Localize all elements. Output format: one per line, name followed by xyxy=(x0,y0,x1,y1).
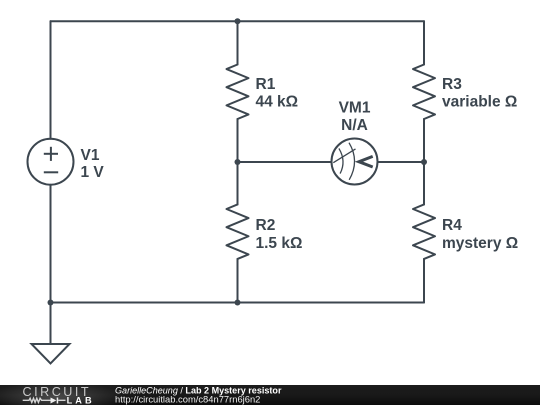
svg-text:VM1: VM1 xyxy=(339,100,371,117)
wire middle horizontal right of VM1 xyxy=(378,161,425,163)
svg-text:44 kΩ: 44 kΩ xyxy=(256,93,299,110)
resistor R4 xyxy=(413,204,435,259)
wire left vertical lower xyxy=(50,185,52,303)
svg-text:R3: R3 xyxy=(442,76,462,93)
resistor R2 xyxy=(227,204,249,259)
node middle junction xyxy=(235,159,241,165)
ground xyxy=(32,344,70,364)
wire right branch bottom xyxy=(423,259,425,303)
wire middle branch top xyxy=(237,21,239,64)
voltage source V1 xyxy=(28,139,74,185)
svg-text:R4: R4 xyxy=(442,217,462,234)
footer logo schematic line xyxy=(23,398,66,402)
footer logo diode xyxy=(51,398,59,404)
wire middle branch bottom xyxy=(237,259,239,303)
svg-text:variable Ω: variable Ω xyxy=(442,93,517,110)
wire bottom rail xyxy=(51,302,425,304)
svg-text:http://circuitlab.com/c84n77rn: http://circuitlab.com/c84n77rn6j6n2 xyxy=(115,394,260,405)
wire left vertical upper xyxy=(50,21,52,138)
svg-text:R1: R1 xyxy=(256,76,276,93)
node ground junction xyxy=(48,300,54,306)
resistor R3 xyxy=(413,65,435,120)
svg-text:N/A: N/A xyxy=(341,117,368,134)
svg-text:mystery Ω: mystery Ω xyxy=(442,235,518,252)
node bottom middle junction xyxy=(235,300,241,306)
node right middle junction xyxy=(421,159,427,165)
svg-text:LAB: LAB xyxy=(67,395,95,405)
wire top rail xyxy=(51,20,425,22)
wire right branch center xyxy=(423,119,425,204)
footer bar xyxy=(0,380,540,405)
svg-text:R2: R2 xyxy=(256,217,276,234)
wire right branch top xyxy=(423,21,425,64)
svg-text:V1: V1 xyxy=(81,147,100,164)
resistor R1 xyxy=(227,65,249,120)
wire middle branch center xyxy=(237,119,239,204)
voltmeter VM1 xyxy=(332,139,378,185)
wire ground stem xyxy=(50,303,52,345)
svg-text:1 V: 1 V xyxy=(81,164,105,181)
svg-text:1.5 kΩ: 1.5 kΩ xyxy=(256,235,303,252)
node top middle junction xyxy=(235,18,241,24)
wire middle horizontal left of VM1 xyxy=(238,161,332,163)
